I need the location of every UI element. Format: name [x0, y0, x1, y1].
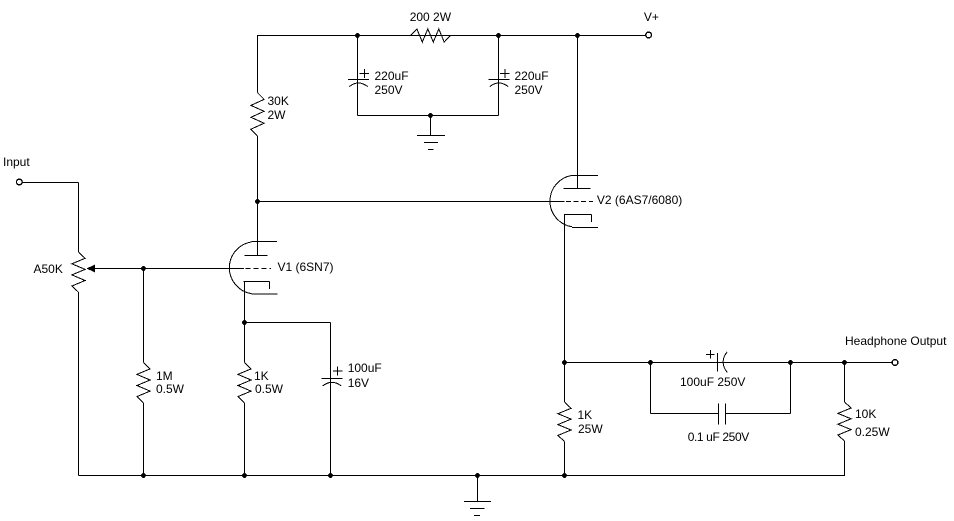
wire V2 plate lead	[577, 35, 579, 189]
capacitor 220uF 250V left	[348, 69, 369, 87]
tube V2 plate	[563, 188, 590, 190]
resistor 30K 2W	[251, 93, 264, 136]
wire capnet left vertical	[650, 363, 652, 414]
tube V1 envelope arc	[229, 242, 251, 294]
wire 1M bottom lead	[143, 403, 145, 476]
node junction capnet right	[788, 360, 793, 365]
tube V1 grid	[246, 268, 271, 270]
capacitor 100uF 250V output	[706, 350, 727, 372]
node junction ground bottom	[475, 473, 480, 478]
wire wiper to V1 grid	[95, 268, 244, 270]
wire left 220uF cap leads	[357, 36, 359, 116]
resistor 200 2W	[411, 29, 451, 42]
tube V2 grid	[566, 201, 593, 203]
node junction V1 plate	[255, 199, 260, 204]
node junction ground top	[428, 113, 433, 118]
wire 0.1uF left lead	[651, 413, 719, 415]
label 250V left	[375, 83, 403, 97]
tube V2 cathode	[564, 215, 591, 222]
tube V2 envelope arc	[550, 175, 572, 226]
label 100uF	[348, 361, 382, 375]
wire cathode to bypass cap	[245, 322, 331, 324]
wire input to pot	[23, 182, 79, 184]
label 0.5W 1M	[156, 382, 184, 396]
resistor 10K 0.25W	[838, 402, 851, 441]
wire caps bottom	[358, 115, 499, 117]
tube V2 envelope top line	[572, 175, 598, 177]
wire pot top lead	[78, 183, 80, 253]
wire 0.1uF right lead	[726, 413, 791, 415]
tube V1 cathode	[244, 282, 270, 290]
terminal Headphone Output	[892, 360, 898, 366]
terminal V+	[646, 32, 652, 38]
wire 1K25W bottom lead	[564, 442, 566, 476]
label A50K	[34, 262, 63, 276]
wire 30K top lead	[257, 35, 259, 93]
node junction capnet left	[648, 360, 653, 365]
wire 1K bottom lead	[244, 403, 246, 476]
capacitor 0.1uF 250V	[719, 404, 726, 425]
resistor 1M 0.5W	[137, 363, 150, 403]
label V1 (6SN7)	[278, 260, 334, 274]
potentiometer A50K	[72, 252, 85, 292]
wire output row	[565, 362, 892, 364]
label 250V right	[515, 83, 543, 97]
wire V1 plate to V2 grid	[258, 201, 565, 203]
wire 10K top lead	[844, 363, 846, 403]
wire capnet right vertical	[790, 363, 792, 414]
node junction V1 cathode	[242, 320, 247, 325]
node junction cap bottom	[328, 473, 333, 478]
label V2 (6AS7/6080)	[597, 193, 682, 207]
label 10K	[855, 407, 876, 421]
ground top	[417, 116, 445, 150]
node junction 1M bottom	[141, 473, 146, 478]
node junction top-left cap	[355, 33, 360, 38]
wire V2 cathode lead	[564, 215, 566, 403]
capacitor 220uF 250V right	[489, 69, 510, 87]
label 0.25W	[855, 425, 890, 439]
label V+	[644, 10, 659, 24]
label 220uF right	[515, 69, 549, 83]
wire 30K bottom to V1 plate	[257, 136, 259, 256]
resistor 1K 0.5W	[238, 363, 251, 403]
wire V1 cathode lead	[244, 282, 246, 363]
node junction 1M top	[141, 266, 146, 271]
wire right 220uF cap leads	[498, 36, 500, 116]
ground bottom	[464, 476, 491, 516]
label 25W	[578, 422, 603, 436]
label 220uF left	[375, 69, 409, 83]
capacitor 100uF 16V	[322, 367, 343, 386]
label 1M	[156, 369, 173, 383]
terminal Input	[16, 179, 22, 185]
wire bypass cap leads	[330, 323, 332, 476]
wire pot bottom lead	[78, 292, 80, 475]
label 100uF 250V	[680, 375, 745, 389]
wire bottom rail	[79, 475, 846, 477]
pot wiper arrow	[87, 265, 95, 273]
tube V1 plate	[244, 255, 267, 257]
node junction 1K25W bottom	[562, 473, 567, 478]
label 1K 25W	[578, 408, 593, 422]
label Headphone Output	[845, 334, 946, 348]
label 0.1 uF 250V	[688, 430, 749, 444]
node junction output	[842, 360, 847, 365]
label 30K	[268, 94, 289, 108]
tube V1 envelope bottom line	[252, 293, 278, 295]
tube V2 envelope bottom line	[572, 227, 598, 229]
wire top rail V+ supply	[258, 35, 646, 37]
tube V1 envelope top line	[252, 241, 277, 243]
label 0.5W 1K	[255, 382, 283, 396]
node junction 1K bottom	[242, 473, 247, 478]
wire 10K bottom lead	[844, 441, 846, 476]
node junction V2 plate	[575, 33, 580, 38]
node junction V2 cathode	[562, 360, 567, 365]
label 1K	[254, 369, 269, 383]
wire 1M top lead	[143, 269, 145, 363]
resistor 1K 25W	[558, 402, 571, 441]
label Input	[3, 155, 30, 169]
node junction top-right cap	[496, 33, 501, 38]
label 16V	[348, 376, 369, 390]
label 2W	[268, 108, 286, 122]
label 200 2W	[410, 10, 451, 24]
